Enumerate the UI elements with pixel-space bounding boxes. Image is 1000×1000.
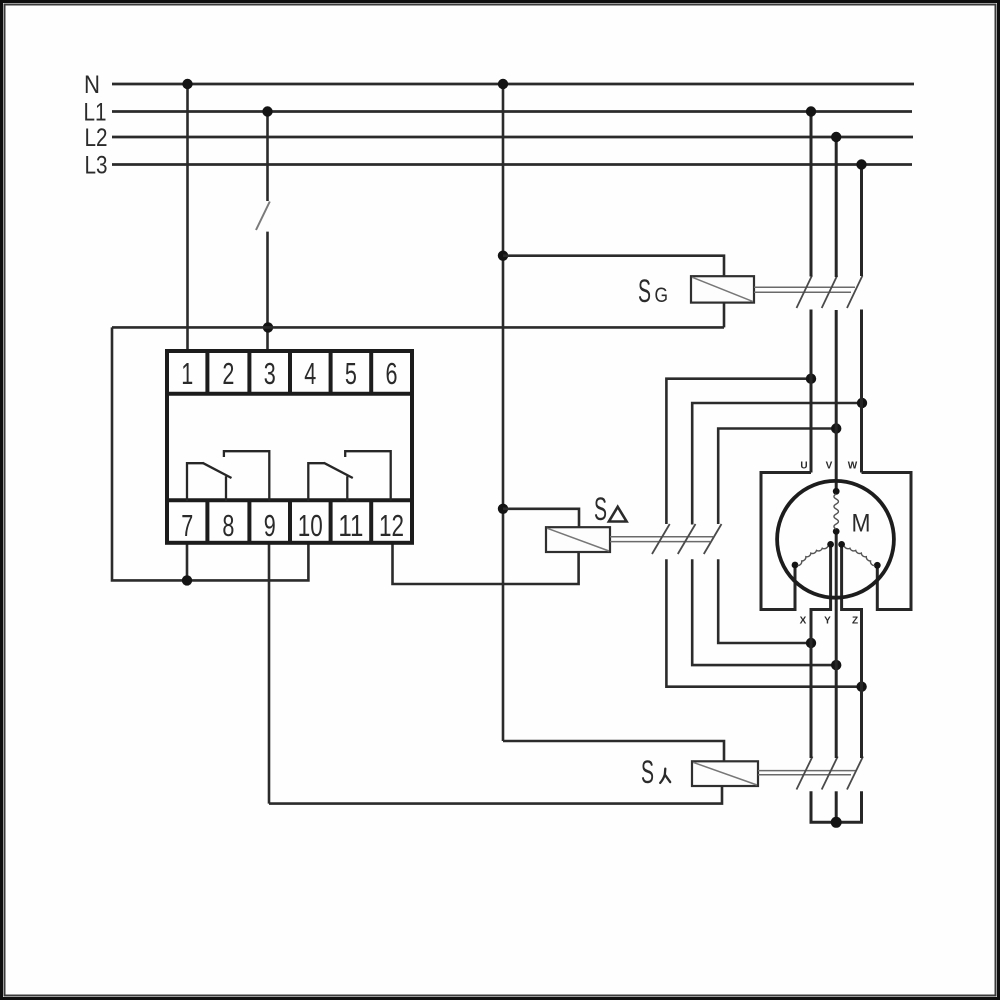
motor Z notch [842, 544, 862, 758]
wire L1 to U [810, 112, 813, 277]
S-star contact slash Y [822, 757, 838, 790]
wire S-star coil top [503, 741, 724, 761]
svg-text:V: V [826, 461, 833, 472]
svg-text:N: N [84, 71, 100, 99]
relay contact 7-8 [187, 463, 203, 501]
svg-text:Y: Y [824, 616, 831, 627]
node L2 x836 [831, 132, 841, 142]
wire terminal 7 down [186, 543, 189, 581]
wire N to terminal 1 [186, 84, 189, 351]
node Z tap [856, 682, 866, 692]
wire terminal 9 down [268, 543, 271, 804]
svg-text:4: 4 [304, 356, 316, 391]
relay NO contact 9 [224, 451, 269, 500]
S-delta slash 1 [652, 524, 670, 554]
svg-text:5: 5 [345, 356, 357, 391]
bus L1 [112, 110, 912, 113]
wire left rail down [112, 327, 308, 580]
svg-text:L3: L3 [85, 152, 108, 180]
S-delta contact U-Z upper [666, 379, 811, 524]
S-star contact slash Z [847, 757, 863, 790]
svg-text:12: 12 [379, 508, 404, 543]
node W tap [857, 398, 867, 408]
terminal dividers bottom [205, 500, 209, 543]
S-delta slash 3 [704, 524, 722, 554]
node L1 x267 [262, 106, 272, 116]
S-delta contact V-X upper [718, 429, 836, 525]
svg-text:M: M [852, 509, 871, 537]
wire S-delta coil top [503, 509, 579, 527]
svg-text:S: S [641, 754, 654, 790]
winding U-X [827, 541, 834, 548]
wire SG coil top [503, 256, 724, 277]
wire SG return to left rail [112, 326, 724, 329]
motor X notch [811, 544, 831, 758]
svg-text:3: 3 [264, 356, 276, 391]
winding W-Z [838, 541, 845, 548]
svg-text:U: U [800, 461, 807, 472]
node N x503 [498, 79, 508, 89]
svg-text:X: X [800, 616, 807, 627]
SG contact slash L2 [822, 276, 838, 309]
svg-text:10: 10 [298, 508, 323, 543]
node S-delta tap [498, 504, 508, 514]
S-delta contact lower to X [718, 559, 811, 643]
node SG coil top tap [498, 251, 508, 261]
node X tap [806, 638, 816, 648]
S-delta contact W-Y upper [692, 403, 862, 525]
wire switch to terminal 3 [266, 232, 269, 351]
svg-text:6: 6 [386, 356, 398, 391]
S-delta contact lower to Z [666, 559, 861, 687]
S-delta slash 2 [678, 524, 696, 554]
svg-text:S: S [594, 491, 607, 527]
wire terminal 12 down [393, 543, 579, 584]
coil SG [691, 276, 754, 302]
svg-text:1: 1 [181, 356, 193, 391]
node U tap [806, 374, 816, 384]
svg-text:2: 2 [222, 356, 234, 391]
SG contact slash L1 [797, 276, 813, 309]
node SG-return / terminal 3 [263, 322, 273, 332]
coil S-delta [546, 527, 610, 552]
wire L3 to W [860, 165, 863, 277]
coil S-star [692, 761, 758, 786]
svg-text:G: G [655, 284, 669, 307]
bus L2 [112, 136, 913, 139]
relay contact 10-11 [308, 463, 324, 501]
relay module outline [167, 351, 412, 543]
relay NO contact 12 [345, 451, 391, 500]
node star point [831, 817, 842, 828]
wire SG coil bottom [723, 303, 726, 328]
wire L1 to switch [266, 112, 269, 202]
motor W loop [862, 473, 912, 610]
bus L3 [112, 163, 912, 166]
svg-text:Z: Z [852, 616, 858, 627]
bus N [112, 83, 914, 86]
node L3 x861 [856, 159, 866, 169]
motor M circle [777, 481, 894, 598]
svg-text:9: 9 [264, 508, 276, 543]
S-delta linkage [610, 536, 713, 538]
SG contact slash L3 [847, 276, 863, 309]
svg-text:S: S [638, 273, 651, 309]
node L1 x811 [806, 106, 816, 116]
S-star linkage [758, 770, 856, 772]
svg-text:L2: L2 [85, 124, 108, 152]
wire S-star coil bottom [269, 786, 722, 804]
winding V-Y [833, 488, 840, 495]
node N x187 [182, 79, 192, 89]
node terminal7 rail [182, 575, 192, 585]
node V tap [831, 423, 841, 433]
terminal dividers top [205, 351, 209, 394]
motor U loop [761, 473, 811, 610]
svg-text:7: 7 [181, 508, 193, 543]
S-delta contact lower to Y [692, 559, 836, 665]
svg-text:11: 11 [338, 508, 363, 543]
wire N down right branch [502, 84, 505, 741]
svg-text:L1: L1 [84, 99, 107, 127]
SG linkage [754, 286, 855, 288]
wire Y [835, 531, 838, 758]
S-star contact slash X [797, 757, 813, 790]
svg-text:W: W [848, 461, 858, 472]
node Y tap [831, 660, 841, 670]
switch blade [256, 202, 270, 231]
star bridge [811, 791, 862, 822]
wire L2 to V [835, 137, 838, 277]
svg-text:8: 8 [222, 508, 234, 543]
